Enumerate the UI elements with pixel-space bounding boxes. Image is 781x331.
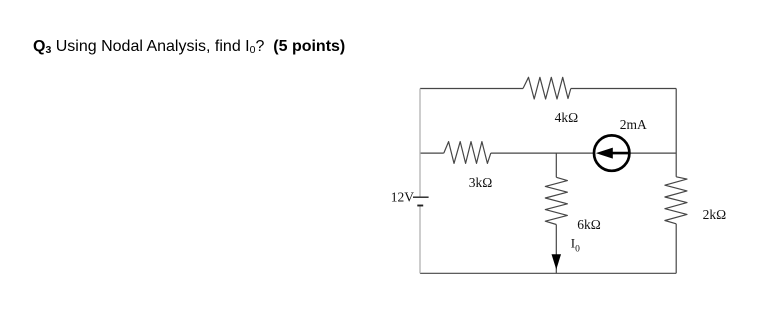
resistor R 2k zigzag bbox=[665, 177, 687, 224]
current source I1 arrow head bbox=[596, 148, 613, 159]
resistor R 3k zigzag bbox=[444, 142, 491, 164]
resistor R 6k zigzag bbox=[545, 177, 567, 224]
wire middle: 3k resistor to right vertical bbox=[491, 152, 676, 154]
wire 6k branch top stub bbox=[555, 153, 557, 177]
wire right vertical lower bbox=[675, 224, 677, 273]
svg-text:I0: I0 bbox=[571, 236, 580, 255]
wire right vertical upper bbox=[675, 89, 677, 177]
title text bbox=[33, 37, 345, 60]
current source I1 arrow shaft bbox=[610, 152, 629, 155]
svg-text:2mA: 2mA bbox=[620, 117, 647, 132]
svg-text:12V: 12V bbox=[391, 189, 415, 204]
svg-text:3kΩ: 3kΩ bbox=[469, 175, 493, 190]
battery V1 short plate bbox=[417, 205, 423, 207]
battery V1 long plate bbox=[413, 196, 429, 198]
wire top: left corner to 4k resistor bbox=[420, 88, 523, 90]
svg-text:4kΩ: 4kΩ bbox=[555, 110, 579, 125]
wire bottom bbox=[420, 272, 676, 274]
current source I1 circle bbox=[594, 135, 629, 170]
wire left vertical upper (gray) bbox=[419, 89, 421, 198]
wire middle: left to 3k resistor bbox=[420, 152, 444, 154]
current I0 arrow head bbox=[552, 254, 562, 269]
svg-text:2kΩ: 2kΩ bbox=[703, 207, 727, 222]
svg-text:6kΩ: 6kΩ bbox=[577, 217, 601, 232]
resistor R 4k zigzag bbox=[523, 77, 571, 99]
wire top: 4k resistor to top-right corner bbox=[571, 88, 676, 90]
wire 6k branch bottom stub bbox=[555, 225, 557, 274]
wire left vertical lower (gray) bbox=[419, 206, 421, 274]
